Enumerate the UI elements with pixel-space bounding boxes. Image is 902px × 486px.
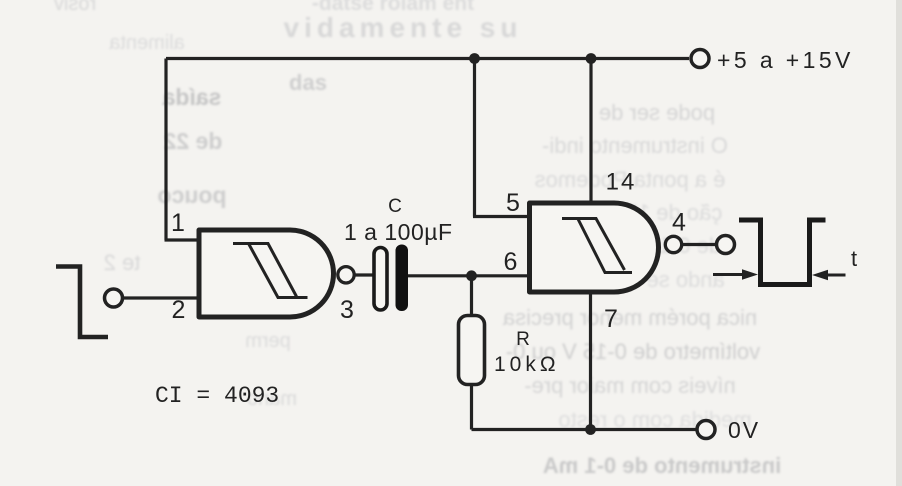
wire: resistor bottom lead xyxy=(470,384,473,430)
svg-text:de 22: de 22 xyxy=(164,128,223,154)
capacitor C plate (solid) xyxy=(396,245,409,312)
output bubble pin 3 xyxy=(338,267,354,283)
terminal +5 a +15V xyxy=(691,50,709,68)
output bubble pin 4 xyxy=(665,236,681,252)
wire: pin 4 to output terminal xyxy=(682,243,716,246)
wire: pin 5 horizontal xyxy=(473,215,531,218)
input waveform xyxy=(56,267,108,338)
svg-text:perm: perm xyxy=(245,330,291,352)
Schmitt hysteresis symbol U1a xyxy=(233,244,308,298)
NAND gate U1a (CI=4093 a) body xyxy=(199,230,334,317)
svg-text:6: 6 xyxy=(504,248,518,276)
junction node (pin 7 / ground rail) xyxy=(585,424,596,435)
wire: pin 3 to capacitor xyxy=(355,273,374,276)
Schmitt hysteresis symbol U1b xyxy=(562,219,632,273)
svg-text:pode ser de: pode ser de xyxy=(599,100,715,125)
output waveform (negative pulse) xyxy=(739,220,826,285)
input terminal xyxy=(105,289,123,307)
wire: pin 14 vertical xyxy=(589,59,592,204)
svg-text:t: t xyxy=(851,246,857,271)
capacitor C plate (outline) xyxy=(374,248,387,311)
wire: pin 1 stub xyxy=(165,238,202,241)
svg-text:alimenta: alimenta xyxy=(108,32,184,54)
svg-text:R: R xyxy=(516,329,530,350)
svg-text:O instrumento indi-: O instrumento indi- xyxy=(542,133,728,158)
svg-text:te 2: te 2 xyxy=(104,250,141,275)
svg-text:CI = 4093: CI = 4093 xyxy=(155,383,279,409)
svg-text:+5 a +15V: +5 a +15V xyxy=(717,47,854,73)
terminal 0V xyxy=(697,421,715,439)
resistor R body xyxy=(459,316,485,385)
svg-text:níveis com maior pre-: níveis com maior pre- xyxy=(524,373,736,398)
svg-text:5: 5 xyxy=(506,189,520,217)
wire: node to pin 6 xyxy=(472,274,531,277)
arrow left (t marker) xyxy=(713,273,742,276)
wire: capacitor to node xyxy=(407,274,472,277)
wire: input to pin 2 xyxy=(123,296,204,299)
wire: ground rail to 0V xyxy=(472,428,697,431)
NAND gate U1b (CI=4093 b) body xyxy=(530,203,659,292)
wire: left feedback vertical (pin 1 loop) xyxy=(164,59,167,241)
bleed-through ghost text (decorative) xyxy=(54,0,781,478)
svg-text:nica porém menor precisa: nica porém menor precisa xyxy=(502,305,757,330)
svg-text:0V: 0V xyxy=(728,417,760,443)
svg-text:10kΩ: 10kΩ xyxy=(494,353,560,376)
svg-text:1: 1 xyxy=(171,209,185,237)
arrow right (t marker) xyxy=(828,274,846,277)
svg-text:2: 2 xyxy=(172,296,186,324)
svg-text:1 a 100µF: 1 a 100µF xyxy=(344,219,453,245)
svg-text:pouco: pouco xyxy=(158,182,227,208)
svg-text:4: 4 xyxy=(672,209,686,237)
svg-text:3: 3 xyxy=(340,296,354,324)
junction node (pin 14 branch) xyxy=(586,53,597,64)
svg-text:C: C xyxy=(388,196,402,217)
junction node (pin 5 branch) xyxy=(469,53,480,64)
svg-text:rosiv: rosiv xyxy=(54,0,96,15)
wire: pin 7 vertical xyxy=(589,292,592,430)
wire: pin 5 branch vertical xyxy=(473,59,476,217)
junction node (capacitor/R/pin6) xyxy=(466,270,477,281)
wire: +V power rail xyxy=(166,57,689,60)
svg-text:saída: saída xyxy=(162,84,221,110)
svg-text:instrumento de 0-1 mA: instrumento de 0-1 mA xyxy=(543,453,781,478)
wire: resistor top lead xyxy=(470,276,473,317)
svg-text:vidamente su: vidamente su xyxy=(284,12,523,43)
svg-text:7: 7 xyxy=(604,305,618,333)
svg-text:14: 14 xyxy=(606,169,637,196)
svg-text:das: das xyxy=(289,70,327,95)
output terminal pin 4 xyxy=(717,236,735,254)
